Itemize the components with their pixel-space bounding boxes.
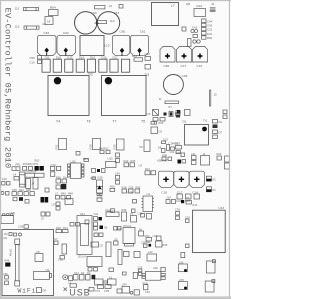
- inductor L3: [68, 281, 77, 288]
- svg-text:C34: C34: [145, 290, 150, 294]
- diode D2: [213, 120, 223, 125]
- capacitor C61: [131, 30, 149, 56]
- part U18: [1, 211, 15, 224]
- part U3 cluster: [124, 159, 156, 175]
- capacitor C21: [94, 212, 102, 226]
- part J0 cluster: [41, 212, 50, 221]
- connector J3: [210, 2, 216, 12]
- dense cluster C23 R27 area: [157, 138, 181, 163]
- resistor R10: [113, 139, 125, 150]
- resistor R45: [156, 241, 168, 247]
- diode D22: [202, 32, 213, 36]
- svg-text:C34: C34: [185, 215, 190, 219]
- transistor Tr4 cluster: [182, 26, 200, 47]
- svg-text:C66: C66: [91, 11, 97, 15]
- diode D7: [213, 130, 223, 135]
- svg-text:D10: D10: [197, 4, 203, 8]
- svg-text:R31: R31: [105, 208, 110, 212]
- capacitor C66: [75, 11, 97, 34]
- svg-text:R45: R45: [163, 243, 168, 247]
- svg-text:WiFi: WiFi: [18, 288, 37, 295]
- diode D3: [206, 187, 216, 192]
- svg-text:T4: T4: [56, 120, 60, 124]
- svg-text:U21: U21: [52, 203, 57, 207]
- svg-text:R10: R10: [113, 144, 117, 150]
- svg-text:C21: C21: [94, 212, 99, 216]
- resistor R6 vertical: [140, 140, 151, 152]
- resistor L5 R46 R48: [55, 192, 73, 200]
- svg-text:R62: R62: [35, 158, 40, 162]
- transistor T2 verticals: [26, 178, 38, 190]
- svg-text:C60: C60: [120, 30, 126, 34]
- svg-text:R24: R24: [217, 152, 222, 156]
- svg-text:C62: C62: [44, 31, 50, 35]
- capacitor C19: [30, 60, 42, 65]
- diode D18 pad: [53, 55, 61, 72]
- resistor R62 label: [6, 158, 40, 163]
- resistor R34: [106, 209, 119, 217]
- diode D14 pad: [76, 55, 84, 72]
- svg-text:U7: U7: [54, 237, 58, 241]
- part U1B: [95, 21, 99, 25]
- svg-text:Tr3: Tr3: [145, 73, 150, 77]
- capacitor C63: [57, 31, 76, 56]
- diode D5a: [213, 125, 218, 129]
- svg-text:C61: C61: [140, 30, 146, 34]
- resistor R50 L04: [145, 234, 162, 241]
- resistor R61b: [83, 157, 89, 162]
- svg-text:U1: U1: [147, 192, 151, 196]
- part U00: [142, 266, 165, 280]
- resistor R42 black: [94, 226, 108, 237]
- svg-text:R13: R13: [145, 167, 150, 171]
- svg-text:R38: R38: [26, 188, 31, 192]
- transistor module T7 T5: [102, 73, 150, 124]
- transistor Q8: [186, 2, 190, 6]
- capacitor C56: [23, 166, 33, 170]
- part L06: [178, 261, 187, 273]
- svg-text:R48: R48: [117, 227, 122, 231]
- diode row below caps: [177, 194, 200, 203]
- svg-text:C38: C38: [58, 258, 63, 262]
- resistor R44 black: [5, 259, 11, 267]
- resistor R60: [202, 36, 213, 40]
- capacitor C39b: [97, 194, 102, 201]
- connector J12: [15, 25, 40, 30]
- svg-text:U3: U3: [139, 164, 143, 168]
- part 50b square: [139, 228, 144, 237]
- capacitor C44b small: [45, 188, 49, 192]
- svg-text:T5: T5: [141, 120, 145, 124]
- WiFi label: [18, 288, 37, 295]
- resistor R17 cluster: [146, 105, 181, 125]
- svg-text:C15: C15: [146, 112, 151, 116]
- svg-text:J1: J1: [159, 97, 163, 101]
- part left square: [133, 272, 137, 278]
- svg-text:C48: C48: [182, 74, 188, 78]
- svg-text:C54: C54: [115, 172, 120, 176]
- svg-text:G15: G15: [2, 177, 7, 181]
- connector J14 cluster: [166, 196, 184, 204]
- part L6: [117, 289, 122, 293]
- svg-text:C10: C10: [197, 64, 203, 68]
- capacitor C31b: [52, 199, 74, 211]
- svg-text:C47: C47: [181, 64, 187, 68]
- svg-text:C7B: C7B: [104, 289, 109, 293]
- inductor L7: [152, 3, 179, 26]
- resistor R64: [49, 6, 59, 16]
- svg-text:R2B: R2B: [128, 190, 133, 194]
- diode D13 pad: [65, 55, 73, 72]
- connector J2: [210, 90, 218, 106]
- svg-text:D2: D2: [219, 120, 223, 124]
- svg-text:L4: L4: [13, 173, 17, 177]
- inductor L10: [80, 36, 110, 56]
- connector G15: [2, 177, 19, 181]
- capacitor C44: [202, 19, 213, 23]
- capacitor C39: [175, 208, 180, 220]
- svg-text:R64: R64: [50, 6, 56, 10]
- capacitor C31: [58, 244, 67, 262]
- svg-text:C42: C42: [192, 26, 198, 30]
- svg-text:C26: C26: [176, 151, 181, 155]
- svg-text:L7: L7: [171, 4, 175, 8]
- svg-text:C39: C39: [175, 208, 180, 212]
- svg-text:R10: R10: [124, 159, 129, 163]
- svg-text:PR1: PR1: [16, 162, 22, 166]
- svg-text:Tr1: Tr1: [203, 118, 208, 122]
- svg-text:C18: C18: [161, 191, 167, 195]
- part U5: [35, 250, 43, 262]
- svg-text:U13: U13: [219, 206, 225, 210]
- connector J6b: [207, 260, 216, 273]
- part U12c tiny: [132, 209, 136, 213]
- part 45B tiny: [123, 272, 127, 275]
- diode D18a: [42, 17, 53, 26]
- svg-text:J3: J3: [211, 2, 215, 6]
- capacitor C40: [163, 74, 187, 116]
- part U7: [54, 237, 58, 245]
- svg-text:D9: D9: [4, 236, 8, 240]
- svg-text:G5: G5: [100, 244, 104, 248]
- transformer Tr1: [185, 118, 209, 145]
- svg-text:D6: D6: [104, 226, 108, 230]
- USB mark: [64, 288, 68, 292]
- relay K1: [95, 275, 117, 285]
- svg-text:R60: R60: [207, 36, 213, 40]
- resistor cluster mid: [92, 169, 106, 173]
- diode D1: [183, 120, 187, 124]
- capacitor C18: [159, 171, 174, 194]
- capacitor C34 pair upper: [116, 153, 120, 163]
- svg-text:C19: C19: [30, 61, 36, 65]
- part U9: [34, 268, 52, 280]
- scan frame: [0, 0, 231, 299]
- part U20: [91, 176, 116, 196]
- svg-text:USB: USB: [69, 288, 90, 298]
- resistor R36: [122, 208, 127, 221]
- resistor R18b C55 R58: [122, 185, 141, 193]
- diode D18: [132, 54, 143, 61]
- svg-text:D5: D5: [186, 196, 190, 200]
- board background: [0, 0, 231, 299]
- svg-text:R26: R26: [131, 159, 136, 163]
- capacitor C11: [191, 152, 196, 165]
- svg-text:R13: R13: [193, 203, 198, 207]
- capacitor lead part near T5: [151, 122, 157, 125]
- svg-text:T7: T7: [113, 120, 117, 124]
- diode D17 pad: [110, 55, 118, 72]
- capacitor C67: [97, 11, 119, 34]
- capacitor C25 cluster: [12, 188, 34, 203]
- part U17: [1, 182, 10, 196]
- resistor R31: [105, 208, 115, 212]
- svg-text:18: 18: [47, 20, 51, 24]
- svg-text:C36: C36: [18, 225, 24, 229]
- transistor module T4 T6: [48, 72, 93, 123]
- transistor T1: [130, 212, 152, 222]
- svg-text:D1: D1: [183, 120, 187, 124]
- capacitor C17: [174, 171, 189, 194]
- diode D16 pad: [99, 55, 107, 72]
- svg-text:L2C: L2C: [148, 250, 153, 254]
- capacitor C58: [30, 56, 42, 61]
- resistor R29 R14: [56, 226, 68, 233]
- svg-text:J11: J11: [15, 7, 20, 11]
- capacitor C45: [202, 23, 213, 27]
- capacitor C7 C30: [118, 250, 157, 265]
- svg-text:D8: D8: [43, 289, 47, 293]
- svg-text:Mod1: Mod1: [9, 249, 13, 256]
- antenna Mod1: [9, 239, 20, 286]
- connector J11: [15, 7, 39, 11]
- part U10: [87, 257, 102, 272]
- svg-text:R44: R44: [5, 259, 10, 263]
- capacitor C23: [202, 27, 213, 31]
- svg-text:R26: R26: [159, 121, 164, 125]
- svg-text:U2B: U2B: [97, 176, 103, 180]
- connector J6a: [201, 152, 210, 165]
- resistor R53 R54 bar: [25, 170, 44, 178]
- capacitor C6: [151, 127, 163, 134]
- circle connector near C41: [63, 275, 68, 280]
- capacitor C79 C7B: [95, 285, 111, 293]
- resistor R18: [89, 139, 101, 150]
- diode D10: [194, 4, 206, 16]
- resistor R44c tiny: [76, 152, 80, 156]
- svg-text:D12: D12: [19, 188, 24, 192]
- svg-text:R18: R18: [89, 144, 93, 150]
- part bottom square: [130, 290, 139, 295]
- diode pair black upper: [35, 166, 44, 171]
- svg-text:C82: C82: [164, 64, 170, 68]
- connector J1: [159, 97, 179, 104]
- capacitor C34 left of U13: [185, 215, 190, 247]
- resistor R0B: [143, 282, 151, 294]
- svg-text:R6: R6: [140, 145, 144, 149]
- svg-text:J15 U4: J15 U4: [78, 255, 87, 259]
- svg-text:U2: U2: [42, 22, 46, 26]
- svg-text:R53R54: R53R54: [27, 170, 37, 174]
- pad top middle: [119, 5, 123, 9]
- svg-text:R7: R7: [169, 105, 173, 109]
- svg-text:U00: U00: [153, 266, 158, 270]
- svg-text:D7: D7: [219, 131, 223, 135]
- svg-text:R7C56C7R71: R7C56C7R71: [23, 163, 39, 166]
- part U35: [178, 278, 187, 290]
- capacitor D24 pair: [70, 223, 80, 227]
- svg-text:U34: U34: [122, 283, 127, 287]
- svg-text:C62: C62: [63, 31, 69, 35]
- resistor R25: [175, 142, 182, 150]
- diode D5: [206, 176, 216, 181]
- svg-text:J12: J12: [15, 25, 20, 29]
- capacitor C70: [51, 163, 61, 177]
- svg-text:C02: C02: [170, 150, 175, 154]
- IC U16: [68, 160, 85, 179]
- svg-text:J4: J4: [109, 4, 113, 8]
- part C23c cluster: [138, 266, 143, 276]
- svg-text:R36: R36: [122, 208, 127, 212]
- resistor R45 R12 small: [99, 147, 110, 154]
- part U11 connector U4: [77, 212, 92, 259]
- capacitor C36: [18, 225, 29, 229]
- diode D19 pad: [122, 59, 130, 72]
- connector J5: [106, 242, 111, 257]
- title text EV-Controller 05,Rehnberg 2010: [3, 8, 13, 169]
- resistor R56 D14: [56, 175, 68, 189]
- resistor row labels: [16, 162, 39, 166]
- resistor R24: [217, 152, 230, 169]
- right edge parts: [223, 110, 227, 119]
- diode D11 pad: [42, 55, 50, 72]
- svg-text:C14R25: C14R25: [169, 142, 179, 146]
- part U0 square: [109, 268, 114, 272]
- svg-text:R46: R46: [61, 192, 66, 196]
- svg-text:R11: R11: [55, 144, 59, 149]
- part after USB: [89, 288, 94, 292]
- capacitor C20: [85, 220, 89, 224]
- part 50 square: [114, 238, 119, 246]
- part U12: [117, 224, 136, 246]
- capacitor C28 R46: [141, 241, 151, 248]
- part U15: [106, 157, 117, 168]
- WiFi module box: [2, 230, 54, 296]
- svg-text:C25: C25: [12, 188, 17, 192]
- diode D15 pad: [87, 55, 95, 72]
- resistor R61 double: [12, 167, 20, 171]
- svg-text:T6: T6: [87, 120, 91, 124]
- part C21b: [181, 253, 185, 258]
- svg-text:A2B R27: A2B R27: [157, 159, 168, 163]
- capacitor C64: [145, 52, 151, 69]
- capacitor C47: [177, 47, 192, 68]
- svg-text:C6: C6: [159, 130, 163, 134]
- resistor R11: [55, 139, 67, 150]
- svg-text:R48: R48: [68, 192, 73, 196]
- svg-text:J2: J2: [214, 93, 218, 97]
- part U34 square: [122, 283, 130, 293]
- capacitor C10: [193, 47, 208, 68]
- capacitor C50: [3, 272, 8, 285]
- connector J13: [114, 227, 122, 231]
- IC U13: [193, 206, 226, 252]
- svg-text:D18: D18: [132, 54, 138, 58]
- capacitor C54 C16: [115, 172, 120, 185]
- capacitor C82: [160, 47, 175, 68]
- capacitor C26 cluster: [176, 151, 186, 164]
- capacitor C14: [189, 171, 204, 194]
- USB label: [69, 288, 90, 298]
- capacitor C60: [113, 30, 130, 56]
- svg-text:J10: J10: [110, 19, 115, 23]
- connector J4: [95, 4, 113, 9]
- capacitor C5: [177, 110, 190, 116]
- diode D4a: [213, 135, 218, 139]
- capacitor C41 row: [69, 271, 96, 281]
- capacitor C62: [38, 31, 57, 56]
- svg-text:J10: J10: [4, 232, 9, 236]
- diode pair black: [41, 197, 49, 203]
- diode D5b above U13: [186, 196, 198, 207]
- connector K2: [205, 280, 215, 292]
- svg-text:U15: U15: [108, 157, 114, 161]
- diode D8: [37, 288, 47, 293]
- svg-text:C79: C79: [95, 289, 100, 293]
- svg-text:C58: C58: [30, 56, 36, 60]
- capacitor C35: [91, 242, 104, 248]
- svg-text:C3: C3: [6, 158, 10, 162]
- IC U1: [128, 190, 155, 211]
- svg-text:Q8: Q8: [186, 2, 190, 6]
- svg-text:C64: C64: [145, 52, 151, 56]
- connector J10: [97, 19, 115, 24]
- svg-text:J14: J14: [167, 196, 172, 200]
- inductor L4: [13, 172, 25, 187]
- svg-text:EV-Controller 05,Rehnberg 2010: EV-Controller 05,Rehnberg 2010: [3, 8, 13, 169]
- svg-text:L10: L10: [104, 44, 109, 48]
